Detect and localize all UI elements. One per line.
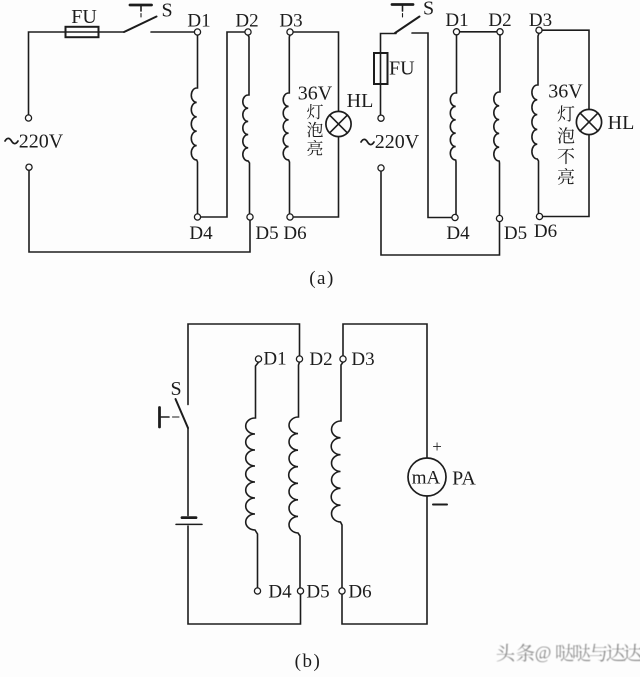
wire: lamp branch top (a-left) bbox=[293, 32, 338, 111]
svg-text:D1: D1 bbox=[187, 11, 210, 32]
terminal D1 (a-right) bbox=[445, 10, 468, 35]
terminal D3 (a-right) bbox=[529, 10, 552, 33]
terminal D2 (a-right) bbox=[488, 10, 511, 35]
svg-text:36V: 36V bbox=[298, 83, 333, 105]
svg-text:PA: PA bbox=[452, 468, 476, 490]
winding D2-D5 (b) bbox=[289, 362, 300, 588]
svg-text:(a): (a) bbox=[309, 268, 335, 289]
svg-text:D3: D3 bbox=[351, 349, 374, 370]
svg-text:220V: 220V bbox=[19, 131, 64, 153]
wire: b top-right loop D3 to meter bbox=[343, 324, 427, 458]
switch S (b) bbox=[160, 378, 189, 428]
terminal D4 (b) bbox=[254, 582, 292, 603]
wire: lamp branch top (a-right) bbox=[542, 30, 589, 109]
svg-text:D3: D3 bbox=[529, 10, 552, 31]
terminal D5 (a-left) bbox=[247, 214, 279, 244]
winding D1-D4 (b) bbox=[246, 362, 259, 588]
label 36V lamp-off (a-right) bbox=[548, 81, 583, 185]
svg-text:(b): (b) bbox=[295, 651, 322, 672]
svg-text:220V: 220V bbox=[375, 131, 420, 153]
wire: switch left to fuse (a-right) bbox=[381, 34, 397, 116]
svg-text:@: @ bbox=[535, 643, 552, 663]
label ~220V (a-left) bbox=[5, 131, 64, 153]
wire: lamp branch bottom (a-right) bbox=[543, 135, 589, 217]
terminal D6 (b) bbox=[339, 582, 372, 603]
wire: D1 to D2 (a-right) bbox=[460, 31, 497, 33]
svg-text:+: + bbox=[432, 437, 442, 456]
svg-text:mA: mA bbox=[412, 468, 441, 489]
ammeter PA (b) bbox=[408, 437, 476, 505]
terminal: source upper (a-left) bbox=[25, 115, 31, 121]
svg-text:D1: D1 bbox=[445, 10, 468, 31]
svg-text:D5: D5 bbox=[306, 582, 329, 603]
wire: switch to D1 bbox=[151, 31, 194, 33]
terminal D3 (b) bbox=[340, 349, 375, 370]
svg-text:D1: D1 bbox=[263, 349, 286, 370]
svg-text:D4: D4 bbox=[446, 223, 470, 244]
switch S (a-right) bbox=[392, 0, 434, 33]
svg-text:D2: D2 bbox=[235, 11, 258, 32]
wire: a-left top wire and left vertical bbox=[29, 32, 125, 115]
svg-text:HL: HL bbox=[608, 112, 635, 134]
svg-text:HL: HL bbox=[347, 90, 374, 112]
terminal D6 (a-left) bbox=[283, 214, 306, 244]
terminal D5 (a-right) bbox=[496, 215, 527, 244]
wire: switch to battery (b) bbox=[187, 428, 189, 516]
winding D3-D6 (a-right) bbox=[532, 33, 539, 213]
svg-text:D5: D5 bbox=[255, 223, 278, 244]
lamp HL (a-left) bbox=[326, 90, 373, 137]
winding D1-D4 (a-left) bbox=[191, 35, 197, 214]
switch S (a-left) bbox=[124, 0, 173, 32]
svg-text:FU: FU bbox=[389, 58, 415, 80]
terminal: source lower (a-left) bbox=[26, 164, 32, 170]
terminal D4 (a-left) bbox=[189, 214, 213, 244]
label 36V lamp-on (a-left) bbox=[298, 83, 333, 156]
svg-text:D5: D5 bbox=[504, 223, 527, 244]
winding D3-D6 (a-left) bbox=[283, 35, 290, 214]
wire: meter bottom to D6 (b) bbox=[342, 496, 427, 624]
terminal D5 (b) bbox=[297, 582, 329, 603]
terminal D3 (a-left) bbox=[279, 11, 302, 36]
svg-text:S: S bbox=[423, 0, 434, 20]
svg-text:36V: 36V bbox=[548, 81, 583, 103]
label ~220V (a-right) bbox=[361, 131, 420, 153]
wire: switch right down to D4 (a-right) bbox=[412, 33, 452, 218]
terminal: source lower (a-right) bbox=[378, 165, 384, 171]
svg-text:S: S bbox=[161, 0, 172, 22]
svg-text:D2: D2 bbox=[309, 349, 332, 370]
svg-text:D6: D6 bbox=[283, 223, 306, 244]
winding D3-D6 (b) bbox=[331, 362, 343, 588]
wire: lamp branch bottom (a-left) bbox=[293, 137, 338, 217]
watermark 头条@哒哒与达达 bbox=[494, 640, 640, 662]
winding D1-D4 (a-right) bbox=[450, 35, 456, 214]
winding D2-D5 (a-right) bbox=[494, 35, 500, 219]
svg-text:D4: D4 bbox=[268, 582, 292, 603]
svg-text:S: S bbox=[170, 378, 181, 400]
svg-text:FU: FU bbox=[71, 6, 97, 28]
fuse FU (a-right) bbox=[374, 53, 415, 84]
svg-text:D2: D2 bbox=[488, 10, 511, 31]
winding D2-D5 (a-left) bbox=[243, 35, 250, 214]
svg-text:D6: D6 bbox=[534, 221, 557, 242]
terminal D1 (a-left) bbox=[187, 11, 210, 36]
svg-text:D6: D6 bbox=[348, 582, 371, 603]
lamp HL (a-right) bbox=[576, 109, 634, 134]
terminal: source upper (a-right) bbox=[378, 115, 384, 121]
wire: D5 to source bottom bbox=[29, 170, 250, 252]
battery GB (b) bbox=[176, 518, 202, 525]
terminal D2 (b) bbox=[296, 349, 332, 370]
wire: battery to bottom, bottom wire to D5 (b) bbox=[188, 526, 301, 624]
svg-text:D3: D3 bbox=[279, 11, 302, 32]
wire: source bottom to D5 (a-right) bbox=[381, 171, 500, 255]
wire: D4 to D2 series link bbox=[201, 32, 245, 217]
fuse FU (a-left) bbox=[66, 6, 99, 37]
terminal D4 (a-right) bbox=[446, 214, 470, 244]
svg-text:D4: D4 bbox=[189, 223, 213, 244]
terminal D1 (b) bbox=[255, 349, 286, 370]
terminal D6 (a-right) bbox=[534, 213, 557, 242]
wire: b top-left loop to D2 bbox=[188, 324, 300, 405]
terminal D2 (a-left) bbox=[235, 11, 258, 36]
